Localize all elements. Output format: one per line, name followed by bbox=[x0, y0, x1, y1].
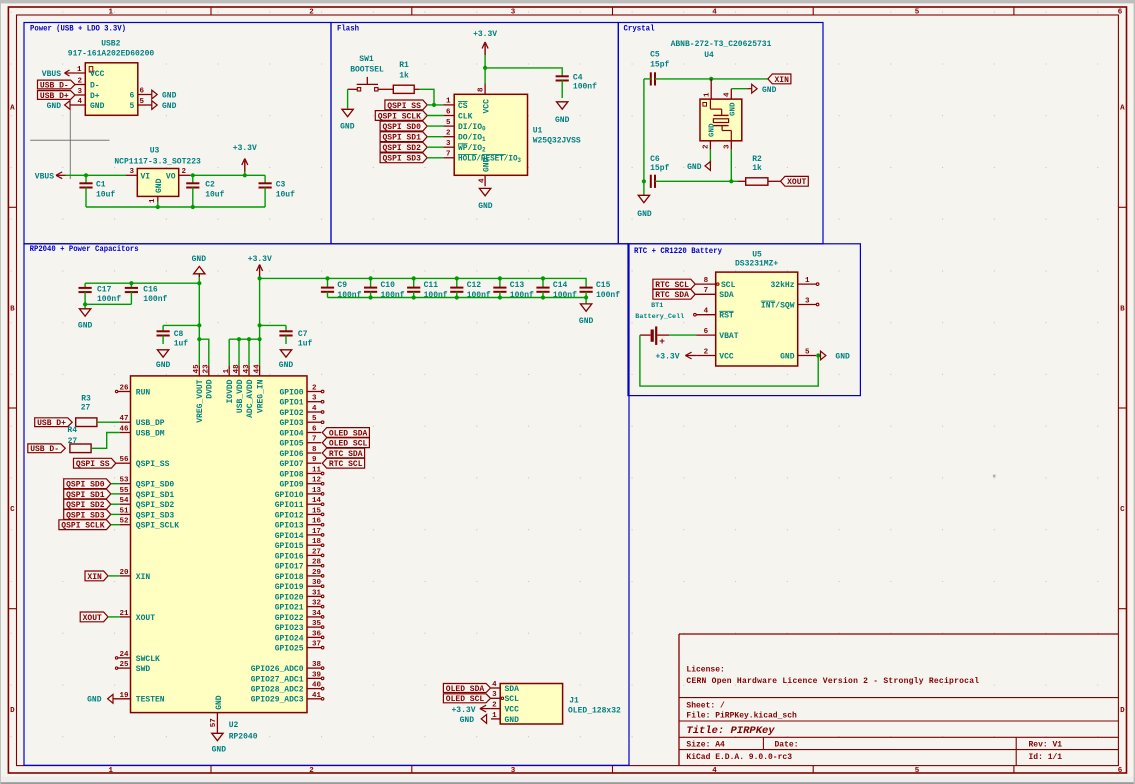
global label USB D- at USB2 bbox=[38, 80, 76, 89]
USB2 pin 5 GND bbox=[129, 98, 151, 111]
wire battery to ground loop bbox=[640, 335, 818, 386]
global label OLED SDA at GPIO4 bbox=[322, 428, 369, 438]
svg-text:100nf: 100nf bbox=[467, 291, 491, 300]
svg-text:5: 5 bbox=[805, 348, 810, 356]
svg-text:2: 2 bbox=[704, 348, 709, 356]
svg-text:20: 20 bbox=[119, 569, 129, 577]
global label XIN at U2 bbox=[85, 571, 108, 581]
svg-text:GND: GND bbox=[279, 361, 294, 370]
svg-text:GPIO9: GPIO9 bbox=[279, 481, 303, 490]
svg-text:QSPI_SD2: QSPI_SD2 bbox=[136, 501, 175, 510]
power symbol +3.3V flash bbox=[473, 30, 497, 55]
svg-text:16: 16 bbox=[312, 518, 322, 526]
global label QSPI SD2 at U2 bbox=[64, 499, 111, 509]
svg-text:QSPI SD1: QSPI SD1 bbox=[383, 134, 422, 143]
ground symbol at C4 bbox=[555, 102, 570, 125]
U2 pin 27 GPIO16 bbox=[275, 548, 324, 561]
svg-text:36: 36 bbox=[312, 630, 322, 638]
svg-text:7: 7 bbox=[446, 151, 451, 159]
svg-text:35: 35 bbox=[312, 620, 322, 628]
svg-text:XIN: XIN bbox=[136, 573, 151, 582]
svg-text:29: 29 bbox=[312, 569, 322, 577]
svg-text:XIN: XIN bbox=[775, 76, 790, 85]
U3 pin 1 GND bbox=[149, 178, 164, 203]
global label QSPI SD1 at U2 bbox=[64, 489, 111, 499]
svg-text:1: 1 bbox=[805, 277, 810, 285]
wire pin 2 to GND label bbox=[709, 150, 711, 166]
capacitor C15 bbox=[580, 281, 621, 300]
svg-text:27: 27 bbox=[312, 548, 321, 556]
svg-text:15pf: 15pf bbox=[650, 164, 669, 173]
svg-text:SWD: SWD bbox=[136, 665, 151, 674]
U2 pin 55 QSPI_SD1 bbox=[119, 487, 174, 500]
hierarchical label GND at TESTEN bbox=[87, 694, 113, 704]
U2 top pin 44 VREG_IN bbox=[253, 364, 265, 413]
svg-text:1: 1 bbox=[446, 98, 451, 106]
ground symbol below C17 bbox=[78, 304, 93, 330]
svg-text:53: 53 bbox=[119, 477, 129, 485]
svg-text:5: 5 bbox=[446, 119, 451, 127]
svg-text:GPIO24: GPIO24 bbox=[275, 634, 304, 643]
svg-text:GPIO27_ADC1: GPIO27_ADC1 bbox=[251, 675, 304, 684]
svg-text:18: 18 bbox=[312, 538, 322, 546]
svg-text:6: 6 bbox=[1118, 767, 1123, 775]
U2 bottom pin 57 GND bbox=[210, 695, 224, 733]
power symbol GND top bbox=[192, 255, 207, 283]
svg-text:3: 3 bbox=[129, 168, 134, 176]
svg-text:+3.3V: +3.3V bbox=[248, 255, 272, 264]
svg-text:GND: GND bbox=[340, 123, 355, 132]
title block size/date/rev text bbox=[686, 741, 1062, 762]
U3 pin 3 VI bbox=[126, 168, 150, 181]
capacitor C3 bbox=[259, 175, 296, 207]
junction C8 branch bbox=[197, 323, 201, 327]
svg-text:3: 3 bbox=[805, 297, 810, 305]
U2 pin 41 GPIO29_ADC3 bbox=[251, 692, 324, 705]
U2 pin 28 GPIO17 bbox=[275, 559, 324, 572]
svg-text:U2: U2 bbox=[229, 721, 239, 730]
wire +3.3V cap rail bbox=[260, 278, 586, 285]
ground symbol below C7 bbox=[279, 350, 294, 370]
U2 pin 8 GPIO6 bbox=[279, 446, 321, 459]
svg-text:2: 2 bbox=[77, 78, 82, 86]
crystal U4 pin 4 GND bbox=[724, 89, 732, 99]
power symbol +3.3V rp2040 bbox=[248, 255, 272, 278]
svg-text:GND: GND bbox=[215, 695, 224, 710]
junction at +3.3V bbox=[243, 173, 247, 177]
svg-text:U4: U4 bbox=[704, 51, 714, 60]
global label XOUT at U2 bbox=[80, 612, 108, 622]
U2 pin 30 GPIO19 bbox=[275, 579, 324, 592]
U2 pin 25 SWD bbox=[115, 661, 150, 674]
svg-text:100nf: 100nf bbox=[573, 83, 597, 92]
svg-text:GPIO22: GPIO22 bbox=[275, 614, 304, 623]
svg-text:15: 15 bbox=[312, 507, 322, 515]
wire pin 3 to XOUT net bbox=[730, 150, 732, 182]
junction QSPI SS node bbox=[432, 103, 436, 107]
wire pin 4 to GND label bbox=[731, 88, 747, 90]
svg-text:4: 4 bbox=[77, 98, 82, 106]
hierarchical label GND at J1 bbox=[460, 715, 487, 725]
svg-text:VCC: VCC bbox=[719, 352, 734, 361]
svg-text:46: 46 bbox=[119, 426, 129, 434]
svg-text:37: 37 bbox=[312, 641, 321, 649]
svg-text:19: 19 bbox=[119, 692, 129, 700]
svg-text:CERN Open Hardware Licence Ver: CERN Open Hardware Licence Version 2 - S… bbox=[686, 677, 979, 686]
svg-text:XOUT: XOUT bbox=[83, 614, 102, 623]
regulator U3 body bbox=[137, 169, 178, 197]
capacitor C11 bbox=[407, 278, 448, 300]
U1 pin 5 DI/IO0 bbox=[443, 119, 486, 133]
U2 pin 16 GPIO13 bbox=[275, 518, 324, 531]
svg-text:2: 2 bbox=[309, 9, 314, 17]
svg-text:File: PiRPKey.kicad_sch: File: PiRPKey.kicad_sch bbox=[686, 712, 797, 721]
junction C17 bottom bbox=[83, 302, 87, 306]
svg-text:57: 57 bbox=[210, 718, 218, 727]
svg-text:55: 55 bbox=[119, 487, 129, 495]
U5 pin 1 32kHz bbox=[770, 277, 818, 290]
hierarchical label GND at crystal pin 4 bbox=[747, 84, 777, 95]
svg-text:D: D bbox=[1120, 707, 1125, 715]
svg-text:GPIO12: GPIO12 bbox=[275, 511, 304, 520]
svg-text:52: 52 bbox=[119, 518, 129, 526]
U2 pin 9 GPIO7 bbox=[279, 456, 321, 469]
svg-text:100nf: 100nf bbox=[97, 295, 121, 304]
U2 pin 4 GPIO2 bbox=[279, 405, 323, 418]
wire GND vertical to VREG_VOUT/DVDD bbox=[198, 283, 200, 365]
junction C7 branch bbox=[258, 323, 262, 327]
junction cap bottom bbox=[455, 295, 459, 299]
hierarchical label +3.3V at J1 bbox=[451, 705, 490, 715]
wire R3 to USB_DP bbox=[97, 421, 120, 423]
flash U1 body bbox=[454, 94, 527, 175]
svg-text:GND: GND bbox=[729, 102, 737, 116]
svg-text:USB_DP: USB_DP bbox=[136, 419, 165, 428]
svg-text:KiCad E.D.A. 9.0.0-rc3: KiCad E.D.A. 9.0.0-rc3 bbox=[686, 753, 792, 762]
svg-text:38: 38 bbox=[312, 661, 322, 669]
svg-text:SW1: SW1 bbox=[359, 55, 374, 64]
svg-text:C5: C5 bbox=[650, 51, 660, 60]
wire DVDD branch bbox=[199, 339, 209, 365]
svg-text:VO: VO bbox=[166, 172, 176, 181]
svg-text:QSPI_SD1: QSPI_SD1 bbox=[136, 491, 175, 500]
svg-text:Sheet: /: Sheet: / bbox=[686, 702, 725, 711]
wire USB_VDD down bbox=[238, 339, 240, 365]
svg-text:GND: GND bbox=[156, 361, 171, 370]
svg-text:C12: C12 bbox=[467, 281, 482, 290]
svg-text:+3.3V: +3.3V bbox=[473, 30, 497, 39]
global label USB D- at R4 bbox=[28, 444, 66, 453]
svg-text:GND: GND bbox=[90, 102, 105, 111]
svg-text:USB D+: USB D+ bbox=[37, 419, 66, 428]
J1 pin 3 SCL bbox=[491, 691, 519, 704]
svg-text:GND: GND bbox=[637, 210, 652, 219]
capacitor C14 bbox=[536, 278, 577, 300]
U2 pin 35 GPIO23 bbox=[275, 620, 324, 633]
capacitor C13 bbox=[493, 278, 534, 300]
svg-text:INT/SQW: INT/SQW bbox=[761, 301, 795, 310]
svg-text:R4: R4 bbox=[67, 426, 77, 435]
svg-text:IOVDD: IOVDD bbox=[226, 379, 235, 403]
rtc U5 body bbox=[716, 272, 798, 366]
svg-text:2: 2 bbox=[312, 385, 317, 393]
junction XOUT node bbox=[729, 179, 733, 183]
svg-text:USB D+: USB D+ bbox=[40, 92, 69, 101]
junction at C2 bottom bbox=[191, 205, 195, 209]
svg-text:XOUT: XOUT bbox=[136, 614, 155, 623]
U2 top pin 1 IOVDD bbox=[223, 366, 235, 404]
U2 top pin 45 VREG_VOUT bbox=[193, 364, 205, 423]
svg-text:C10: C10 bbox=[381, 281, 396, 290]
svg-text:C: C bbox=[10, 506, 15, 514]
svg-text:17: 17 bbox=[312, 528, 321, 536]
svg-text:3: 3 bbox=[492, 691, 497, 699]
svg-text:32: 32 bbox=[312, 600, 322, 608]
svg-text:SWCLK: SWCLK bbox=[136, 655, 160, 664]
svg-text:R1: R1 bbox=[399, 61, 409, 70]
wire SW1 to GND bbox=[347, 89, 349, 108]
U2 pin 18 GPIO15 bbox=[275, 538, 324, 551]
svg-text:3: 3 bbox=[312, 395, 317, 403]
USB2 pin 1 VCC bbox=[65, 66, 105, 79]
svg-text:5: 5 bbox=[129, 102, 134, 111]
svg-text:44: 44 bbox=[253, 364, 261, 374]
svg-text:CLK: CLK bbox=[458, 112, 473, 121]
U2 pin 21 XOUT bbox=[119, 610, 155, 623]
svg-text:25: 25 bbox=[119, 661, 129, 669]
svg-text:SCL: SCL bbox=[505, 695, 520, 704]
svg-text:GPIO10: GPIO10 bbox=[275, 491, 304, 500]
svg-text:5: 5 bbox=[140, 98, 145, 106]
wire XIN stub bbox=[108, 575, 120, 577]
svg-text:Title: PIRPKey: Title: PIRPKey bbox=[686, 725, 775, 737]
svg-text:OLED SCL: OLED SCL bbox=[446, 695, 485, 704]
U5 pin 7 SDA bbox=[695, 287, 734, 300]
hierarchical label GND at U5 bbox=[821, 351, 851, 362]
svg-text:U1: U1 bbox=[533, 126, 543, 135]
svg-text:34: 34 bbox=[312, 610, 322, 618]
U2 pin 3 GPIO1 bbox=[279, 395, 323, 408]
junction cap bottom bbox=[412, 295, 416, 299]
svg-text:917-161A202ED60200: 917-161A202ED60200 bbox=[68, 50, 155, 59]
U2 pin 53 QSPI_SD0 bbox=[119, 477, 174, 490]
svg-text:VREG_IN: VREG_IN bbox=[257, 379, 266, 413]
svg-text:QSPI SD2: QSPI SD2 bbox=[66, 501, 105, 510]
svg-text:RST: RST bbox=[719, 312, 734, 321]
svg-text:D+: D+ bbox=[90, 92, 100, 101]
hierarchical label GND at USB2 pin 5 bbox=[152, 101, 177, 111]
hierarchical label GND at USB2 pin 4 bbox=[47, 101, 70, 111]
svg-text:OLED SDA: OLED SDA bbox=[329, 429, 368, 438]
svg-text:GPIO1: GPIO1 bbox=[279, 399, 303, 408]
svg-text:32kHz: 32kHz bbox=[770, 281, 794, 290]
svg-text:GPIO23: GPIO23 bbox=[275, 624, 304, 633]
capacitor C6 bbox=[650, 175, 652, 188]
svg-text:6: 6 bbox=[704, 328, 709, 336]
global label QSPI SCLK bbox=[375, 111, 427, 121]
global label QSPI SS bbox=[385, 100, 427, 110]
svg-text:VCC: VCC bbox=[90, 70, 105, 79]
svg-text:4: 4 bbox=[712, 767, 717, 775]
global label RTC SDA bbox=[653, 289, 695, 299]
svg-text:8: 8 bbox=[477, 87, 485, 92]
mcu U2 body bbox=[131, 376, 308, 713]
svg-text:1: 1 bbox=[703, 92, 711, 97]
svg-text:48: 48 bbox=[233, 364, 241, 374]
svg-text:RTC SDA: RTC SDA bbox=[655, 291, 689, 300]
svg-text:License:: License: bbox=[686, 666, 724, 675]
svg-text:C13: C13 bbox=[510, 281, 525, 290]
U5 pin 4 RST bbox=[694, 308, 734, 321]
hierarchical label VBUS at LDO input bbox=[35, 172, 66, 181]
svg-text:26: 26 bbox=[119, 385, 129, 393]
junction at C1 top bbox=[84, 173, 88, 177]
crystal U4 pin 1 bbox=[703, 79, 711, 99]
svg-text:BOOTSEL: BOOTSEL bbox=[350, 66, 384, 75]
U2 pin 36 GPIO24 bbox=[275, 630, 324, 643]
global label QSPI SD3 bbox=[380, 153, 427, 163]
wire QSPI SCLK stub bbox=[427, 115, 443, 117]
U5 pin 2 VCC bbox=[697, 348, 734, 361]
USB2 pin 3 D+ bbox=[75, 88, 100, 101]
U5 pin 5 GND bbox=[780, 348, 816, 361]
svg-text:Battery_Cell: Battery_Cell bbox=[635, 313, 684, 321]
svg-text:GPIO16: GPIO16 bbox=[275, 552, 304, 561]
svg-text:100nf: 100nf bbox=[381, 291, 405, 300]
U2 pin 7 GPIO5 bbox=[279, 436, 321, 449]
svg-text:GND: GND bbox=[478, 202, 493, 211]
U2 pin 46 USB_DM bbox=[119, 426, 164, 439]
svg-text:13: 13 bbox=[312, 487, 322, 495]
wire U3 pin1 to ground bus bbox=[157, 202, 159, 208]
svg-text:SDA: SDA bbox=[505, 685, 520, 694]
U2 pin 51 QSPI_SD3 bbox=[119, 507, 174, 520]
svg-text:QSPI SS: QSPI SS bbox=[387, 102, 421, 111]
U1 pin 4 GND bbox=[478, 157, 491, 186]
svg-text:30: 30 bbox=[312, 579, 322, 587]
svg-text:A: A bbox=[1120, 105, 1125, 113]
junction C11 top bbox=[412, 276, 416, 280]
svg-text:10uf: 10uf bbox=[205, 190, 224, 199]
svg-text:J1: J1 bbox=[569, 697, 579, 706]
svg-text:45: 45 bbox=[193, 364, 201, 374]
svg-text:C8: C8 bbox=[174, 330, 184, 339]
title block border bbox=[679, 634, 1118, 766]
svg-text:VBUS: VBUS bbox=[35, 172, 54, 181]
capacitor C12 bbox=[450, 278, 491, 300]
U2 pin 39 GPIO27_ADC1 bbox=[251, 671, 324, 684]
svg-text:QSPI SS: QSPI SS bbox=[76, 460, 110, 469]
wire QSPI SD0 stub bbox=[111, 483, 120, 485]
svg-text:GND: GND bbox=[155, 178, 164, 193]
svg-text:DI/IO0: DI/IO0 bbox=[458, 123, 486, 133]
U2 pin 47 USB_DP bbox=[119, 415, 164, 428]
svg-text:+3.3V: +3.3V bbox=[451, 706, 475, 715]
capacitor C2 bbox=[186, 175, 224, 207]
svg-text:GPIO13: GPIO13 bbox=[275, 522, 304, 531]
svg-text:GND: GND bbox=[762, 86, 777, 95]
U2 pin 17 GPIO14 bbox=[275, 528, 324, 541]
svg-text:QSPI_SD3: QSPI_SD3 bbox=[136, 511, 175, 520]
junction cap bottom bbox=[498, 295, 502, 299]
svg-text:4: 4 bbox=[704, 308, 709, 316]
svg-text:1: 1 bbox=[223, 368, 231, 373]
global label RTC SCL bbox=[653, 279, 695, 289]
svg-text:28: 28 bbox=[312, 559, 322, 567]
svg-text:41: 41 bbox=[312, 692, 322, 700]
svg-text:39: 39 bbox=[312, 671, 322, 679]
svg-text:USB2: USB2 bbox=[101, 40, 120, 49]
wire ground bus below LDO bbox=[86, 206, 265, 208]
U2 pin 2 GPIO0 bbox=[279, 385, 323, 398]
svg-text:2: 2 bbox=[703, 144, 711, 149]
svg-text:USB_DM: USB_DM bbox=[136, 429, 165, 438]
svg-text:C3: C3 bbox=[276, 180, 286, 189]
U1 pin 8 VCC bbox=[477, 84, 491, 114]
global label QSPI SD0 at U2 bbox=[64, 479, 111, 489]
wire cap rail bottom bbox=[328, 297, 587, 299]
section box RTC + CR1220 Battery bbox=[628, 244, 860, 396]
svg-text:GPIO11: GPIO11 bbox=[275, 501, 304, 510]
svg-text:SDA: SDA bbox=[719, 291, 734, 300]
svg-text:1k: 1k bbox=[752, 164, 762, 173]
svg-text:WP/IO2: WP/IO2 bbox=[458, 144, 486, 154]
svg-text:11: 11 bbox=[312, 467, 322, 475]
wire C17 C16 bottoms bbox=[85, 303, 131, 305]
svg-text:GND: GND bbox=[212, 746, 227, 755]
svg-text:GPIO17: GPIO17 bbox=[275, 563, 304, 572]
svg-text:C16: C16 bbox=[143, 286, 158, 295]
capacitor C10 bbox=[364, 278, 405, 300]
U2 pin 29 GPIO18 bbox=[275, 569, 324, 582]
svg-text:1: 1 bbox=[149, 198, 157, 203]
svg-text:GND: GND bbox=[505, 716, 520, 725]
svg-text:Power (USB + LDO 3.3V): Power (USB + LDO 3.3V) bbox=[30, 25, 126, 34]
svg-text:31: 31 bbox=[312, 589, 322, 597]
svg-text:GND: GND bbox=[47, 102, 62, 111]
svg-text:D-: D- bbox=[90, 81, 100, 90]
global label OLED SCL at GPIO5 bbox=[322, 438, 369, 448]
svg-text:7: 7 bbox=[312, 436, 317, 444]
hierarchical label GND at USB2 pin 6 bbox=[152, 90, 177, 100]
svg-text:6: 6 bbox=[129, 91, 134, 100]
svg-text:GPIO6: GPIO6 bbox=[279, 450, 303, 459]
ground symbol below C8 bbox=[156, 350, 171, 370]
svg-text:GND: GND bbox=[835, 353, 850, 362]
U2 pin 14 GPIO11 bbox=[275, 497, 324, 510]
svg-text:1: 1 bbox=[77, 66, 82, 74]
wire QSPI SD3 stub bbox=[427, 157, 443, 159]
junction C12 top bbox=[455, 276, 459, 280]
svg-text:B: B bbox=[1120, 305, 1125, 313]
svg-text:1: 1 bbox=[109, 767, 114, 775]
svg-text:51: 51 bbox=[119, 507, 129, 515]
svg-text:GND: GND bbox=[709, 123, 717, 137]
svg-text:OLED_128x32: OLED_128x32 bbox=[568, 706, 621, 715]
U2 pin 13 GPIO10 bbox=[275, 487, 324, 500]
capacitor C9 bbox=[321, 278, 362, 300]
wire XOUT net bbox=[655, 180, 738, 182]
svg-text:C1: C1 bbox=[96, 180, 106, 189]
svg-text:GPIO7: GPIO7 bbox=[279, 460, 303, 469]
U2 pin 31 GPIO20 bbox=[275, 589, 324, 602]
junction C14 top bbox=[541, 276, 545, 280]
svg-text:GPIO8: GPIO8 bbox=[279, 470, 303, 479]
junction GND rail bbox=[197, 281, 201, 285]
U2 top pin 23 DVDD bbox=[203, 364, 215, 399]
svg-text:USB_VDD: USB_VDD bbox=[236, 379, 245, 413]
crystal U4 pin 3 bbox=[724, 141, 732, 150]
